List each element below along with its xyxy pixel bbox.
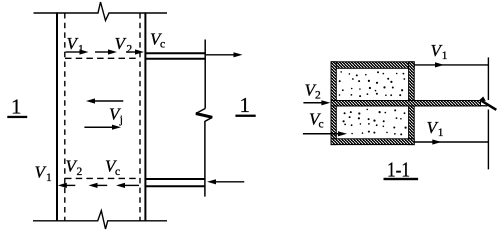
svg-text:2: 2	[315, 90, 321, 102]
top beam upper flange line	[146, 52, 205, 54]
V2 arrow into web plate (points right)	[303, 100, 330, 105]
dashed inner line right (joint panel edge)	[139, 13, 141, 221]
label Vc (section)	[309, 110, 324, 131]
svg-text:2: 2	[77, 166, 83, 178]
svg-text:1: 1	[442, 50, 448, 62]
label V1 top	[67, 34, 85, 56]
bottom shear arrow V2 segment (points left)	[89, 183, 108, 188]
concrete stipple lower cell	[339, 109, 406, 136]
label V1 (section bottom)	[427, 118, 444, 139]
section mark 1 (right)	[235, 93, 255, 117]
joint panel top dashed edge	[65, 57, 140, 59]
joint shear upper arrow (points left)	[86, 98, 123, 103]
bottom boundary line of column (with break)	[33, 211, 167, 229]
label V2 bottom	[66, 157, 83, 179]
svg-text:j: j	[119, 114, 123, 126]
svg-text:c: c	[319, 119, 324, 131]
label Vc bottom	[105, 157, 120, 179]
box left wall (hatched steel plate)	[331, 62, 336, 145]
joint shear lower arrow (points right)	[84, 125, 121, 130]
joint panel bottom dashed edge	[65, 177, 140, 179]
box top wall (hatched steel plate)	[331, 62, 414, 69]
bottom beam lower flange line	[146, 185, 205, 187]
column right flange line	[144, 12, 146, 221]
box bottom wall (hatched steel plate)	[331, 139, 414, 145]
bottom shear arrow Vc segment (points left)	[116, 183, 139, 188]
svg-text:2: 2	[127, 44, 133, 56]
svg-text:1: 1	[46, 172, 52, 184]
svg-text:1: 1	[438, 127, 444, 139]
bottom beam shear arrow (points left)	[207, 179, 244, 184]
label Vc top	[150, 30, 165, 51]
svg-text:c: c	[115, 166, 120, 178]
box right wall (hatched steel plate)	[409, 62, 415, 145]
top beam lower flange line	[146, 58, 205, 60]
section mark 1 (left)	[7, 95, 27, 119]
middle web plate (hatched, extends right with broken end)	[331, 97, 496, 110]
svg-text:c: c	[160, 39, 165, 51]
svg-text:1: 1	[78, 44, 84, 56]
svg-text:1: 1	[240, 93, 251, 117]
bottom shear arrow V1 segment (points left)	[58, 183, 76, 188]
beam end vertical line with break	[196, 40, 213, 197]
concrete stipple upper cell	[339, 71, 405, 97]
column left flange line	[56, 12, 58, 221]
top shear arrow V1 segment	[66, 49, 89, 54]
svg-text:1: 1	[11, 95, 22, 119]
label V1 bottom left	[35, 162, 53, 184]
label V1 (section top)	[431, 41, 448, 62]
top beam shear arrow (points right)	[206, 52, 243, 57]
section title 1-1	[384, 158, 419, 182]
top boundary line of column (with break)	[34, 2, 168, 21]
label V2 (section)	[305, 81, 322, 102]
label Vj	[109, 105, 123, 127]
bottom beam upper flange line	[146, 178, 205, 180]
dashed inner line left (joint panel edge)	[64, 13, 66, 221]
top shear arrow segment at column face	[126, 49, 144, 54]
V1 bottom arrow line (points right, head midway)	[414, 139, 488, 144]
V1 top arrow line (points right, head midway)	[414, 62, 488, 67]
label V2 top	[115, 34, 133, 56]
right boundary vertical line of section	[487, 57, 489, 169]
Vc arrow into lower cell (points right)	[303, 131, 347, 136]
top shear arrow V2 segment	[95, 49, 117, 54]
